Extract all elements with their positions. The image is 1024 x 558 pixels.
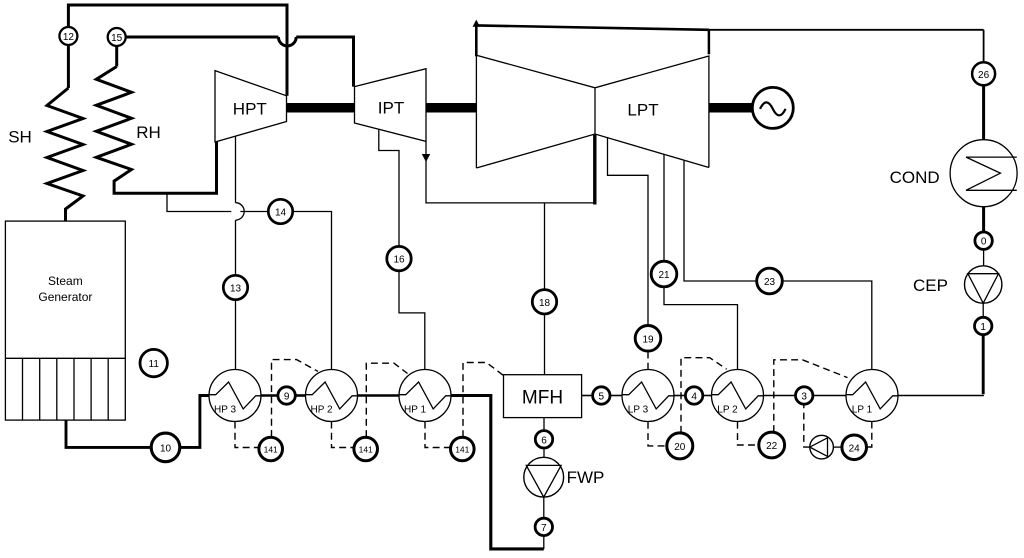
svg-text:LP 3: LP 3 (628, 404, 649, 415)
svg-text:HPT: HPT (233, 99, 267, 118)
node 18 (532, 290, 556, 314)
svg-text:7: 7 (541, 523, 547, 534)
svg-text:14: 14 (275, 208, 287, 219)
shaft HPT-IPT (287, 103, 355, 113)
node 15 (108, 28, 126, 46)
turbine HPT (215, 71, 287, 142)
heater LP1 (846, 370, 898, 422)
drain HP1 (dashed) (425, 422, 450, 448)
svg-text:21: 21 (658, 270, 670, 281)
svg-text:RH: RH (136, 123, 161, 142)
node 141 (HP3 drain) (259, 437, 283, 461)
node 16 (387, 246, 411, 270)
drain LP3 (dashed) (648, 422, 667, 446)
wire extraction to node 18 and MFH (544, 203, 546, 290)
drain LP2 (dashed) (738, 422, 759, 445)
drain HP2 (dashed) (332, 422, 354, 448)
node 1 (975, 317, 992, 334)
heater HP3 (209, 370, 261, 422)
svg-text:HP 3: HP 3 (214, 404, 236, 415)
svg-text:9: 9 (284, 392, 290, 403)
turbine IPT (355, 69, 427, 142)
node 141 (HP2 drain) (354, 437, 378, 461)
node 3 (796, 387, 813, 404)
svg-text:19: 19 (642, 334, 654, 345)
drain HP3 (dashed) (235, 422, 259, 448)
node 9 (278, 387, 295, 404)
wire LPT admission (thick) (593, 134, 596, 205)
svg-text:SH: SH (8, 127, 32, 146)
svg-text:Generator: Generator (38, 290, 92, 304)
svg-text:20: 20 (674, 442, 686, 453)
wire cold reheat tap to node 14 and HP2 (167, 194, 268, 212)
svg-text:24: 24 (849, 443, 861, 454)
heater HP2 (306, 370, 358, 422)
svg-text:6: 6 (541, 435, 547, 446)
drain pump to node 3 (dashed) (804, 404, 810, 447)
wire circle12 to SH coil (67, 46, 70, 89)
svg-text:IPT: IPT (378, 98, 404, 117)
wire hot reheat 15 to IPT (with hop over HPT line) (126, 36, 279, 39)
wire circle15 down to RH coil (115, 46, 118, 67)
svg-text:141: 141 (264, 444, 278, 454)
svg-text:11: 11 (149, 359, 160, 370)
node 0 (975, 232, 992, 249)
shaft IPT-LPT (426, 103, 477, 113)
node 26 (972, 62, 995, 85)
node 22 (759, 432, 785, 458)
svg-text:26: 26 (978, 70, 990, 81)
wire condensate to LP1 (982, 335, 985, 395)
wire LP1 to node 3 (813, 395, 846, 397)
pump CEP (965, 266, 1002, 303)
wire LPT extraction to node 19 and LP3 (608, 137, 649, 325)
wire IPT extraction to node 16 and HP1 (379, 129, 399, 246)
svg-text:Steam: Steam (48, 274, 83, 288)
svg-text:10: 10 (160, 443, 172, 454)
condenser COND (950, 140, 1017, 207)
svg-text:18: 18 (539, 298, 551, 309)
node 20 (667, 433, 693, 459)
svg-text:0: 0 (981, 237, 987, 248)
heater LP3 (622, 370, 674, 422)
node 13 (223, 275, 247, 299)
wire IPT exhaust crossover to LPT and MFH (426, 141, 595, 203)
svg-text:COND: COND (890, 168, 940, 187)
node 141 (HP1 drain) (451, 437, 475, 461)
node 12 (59, 27, 77, 45)
deaerator MFH (504, 375, 582, 418)
drain cascade LP1 to 22 (dashed) (774, 360, 848, 432)
generator G (752, 87, 793, 128)
node 5 (593, 387, 610, 404)
svg-text:LP 2: LP 2 (717, 404, 738, 415)
drain cascade HP2 to 141 (dashed) (272, 360, 318, 437)
svg-text:5: 5 (599, 392, 605, 403)
node 19 (635, 326, 661, 352)
svg-text:13: 13 (230, 284, 242, 295)
drain LP1 (dashed) (867, 422, 872, 447)
turbine LPT body (476, 55, 709, 168)
wire feedwater FWP to HP1 (thick) (451, 396, 544, 549)
svg-text:141: 141 (359, 444, 373, 454)
reheater RH coil and wire to HPT exhaust (96, 67, 216, 194)
svg-text:FWP: FWP (567, 468, 605, 487)
drain cascade LP2 to 20 (dashed) (681, 358, 727, 433)
drain cascade HP1 to 141 (dashed) (366, 363, 407, 437)
drain pump (810, 435, 834, 459)
svg-text:LPT: LPT (627, 100, 658, 119)
heater LP2 (712, 370, 764, 422)
svg-text:15: 15 (111, 33, 123, 44)
svg-text:22: 22 (766, 441, 778, 452)
node 10 (151, 433, 180, 462)
wire LPT to condenser (983, 30, 985, 62)
node 21 (651, 261, 677, 287)
svg-text:LP 1: LP 1 (852, 404, 873, 415)
svg-text:23: 23 (764, 277, 776, 288)
pump FWP (524, 457, 564, 497)
wire LPT extraction to node 23 and LP1 (684, 160, 757, 281)
superheater SH coil (47, 88, 83, 221)
arrow up LPT inlet corner (473, 20, 480, 27)
wire HPT extraction to node 13 and HP3 (hops over 14 line) (235, 136, 237, 202)
node 23 (757, 268, 783, 294)
svg-text:MFH: MFH (522, 387, 563, 408)
node 7 (535, 518, 552, 535)
svg-text:CEP: CEP (913, 276, 948, 295)
svg-text:HP 1: HP 1 (404, 404, 426, 415)
svg-text:3: 3 (801, 392, 807, 403)
turbine LPT casing top (475, 25, 478, 56)
steam generator box (5, 221, 125, 420)
drain cascade MFH (dashed) (463, 363, 504, 438)
svg-text:141: 141 (455, 444, 469, 454)
svg-text:HP 2: HP 2 (310, 404, 332, 415)
wire LPT extraction to node 21 and LP2 (663, 154, 665, 261)
wire node 10 to steam generator (66, 420, 151, 447)
node 11 (140, 349, 167, 376)
node 24 (842, 435, 867, 460)
wire HP1-HP2 (thick) (358, 394, 400, 397)
wire node24 to drain pump (833, 446, 842, 448)
heater HP1 (399, 370, 451, 422)
svg-text:16: 16 (393, 255, 405, 266)
shaft LPT-generator (709, 103, 753, 113)
node 14 (268, 199, 292, 223)
node 6 (535, 431, 552, 448)
wire main steam SH top to HPT inlet (68, 5, 287, 96)
wire HP3 to node 10 (thick) (180, 396, 209, 448)
node 4 (685, 387, 702, 404)
steam generator hatch (23, 358, 109, 420)
svg-text:4: 4 (691, 392, 697, 403)
arrow down on IPT exhaust (422, 154, 430, 162)
svg-text:12: 12 (63, 32, 75, 43)
svg-text:1: 1 (980, 322, 986, 333)
